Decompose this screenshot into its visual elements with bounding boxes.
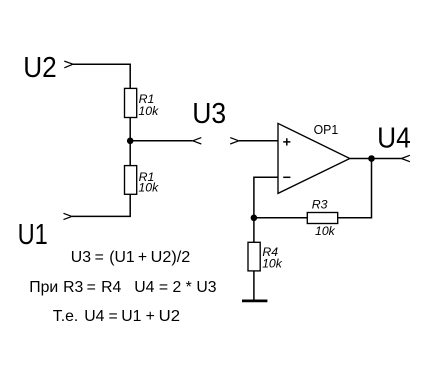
wire op-amp output (350, 158, 402, 160)
node C junction (output) (368, 155, 375, 162)
svg-text:U2: U2 (23, 52, 57, 84)
op-amp OP1 triangle (278, 123, 350, 193)
wire node B to R3 (254, 217, 307, 219)
svg-text:Т.е.U4=U1+U2: Т.е.U4=U1+U2 (53, 308, 180, 325)
wire node A to U3 tap (130, 140, 193, 142)
wire R1 to R1 (129, 118, 131, 166)
resistor R3 (307, 213, 337, 224)
connector U4 (401, 155, 410, 161)
node junction A (127, 138, 134, 145)
svg-text:U1: U1 (18, 219, 48, 251)
wire R1 to U1 (72, 194, 130, 216)
node B junction (251, 215, 258, 222)
connector U2 (64, 61, 73, 68)
wire R3 to output node (338, 159, 372, 218)
connector U1 (64, 213, 72, 219)
svg-text:10k: 10k (138, 181, 159, 195)
svg-text:U3: U3 (192, 98, 226, 130)
svg-text:10k: 10k (138, 104, 159, 118)
connector op-amp input (230, 138, 239, 144)
op-amp plus input mark (283, 138, 290, 145)
svg-text:10k: 10k (315, 224, 336, 238)
wire node B down to R4 (253, 218, 255, 243)
wire to op-amp + input (239, 140, 278, 142)
resistor R4 (248, 242, 260, 271)
resistor R1 (top) (125, 88, 137, 117)
op-amp minus input mark (283, 176, 290, 178)
wire R4 to ground (253, 271, 255, 301)
ground (242, 300, 267, 303)
svg-text:R3: R3 (312, 198, 328, 212)
wire op-amp minus input down to node B (254, 177, 278, 218)
svg-text:OP1: OP1 (314, 122, 339, 137)
svg-text:U4: U4 (377, 122, 411, 154)
connector U3 out (193, 138, 202, 144)
resistor R1 (bottom) (125, 166, 137, 195)
svg-text:10k: 10k (262, 257, 283, 271)
svg-text:U3=(U1+U2)/2: U3=(U1+U2)/2 (71, 249, 190, 266)
wire U2 to R1 (73, 64, 130, 88)
